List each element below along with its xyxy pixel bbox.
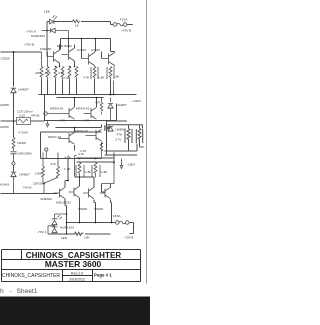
svg-text:1.8K: 1.8K [113,75,120,79]
svg-text:47K: 47K [117,133,123,137]
svg-text:2.7V: 2.7V [115,138,122,142]
svg-text:100V/250V: 100V/250V [17,152,33,156]
svg-text:4.7K: 4.7K [78,152,85,156]
svg-text:4.7K: 4.7K [63,76,70,80]
svg-text:MJE15033: MJE15033 [56,201,71,205]
svg-text:C5200: C5200 [1,57,10,61]
svg-text:MUR1620: MUR1620 [31,34,45,38]
svg-text:LED: LED [61,236,68,240]
svg-text:-70V B: -70V B [22,186,31,190]
svg-text:10K: 10K [84,236,90,240]
svg-text:22K/2W: 22K/2W [33,182,44,186]
svg-text:C5200: C5200 [94,207,103,211]
svg-text:56K: 56K [139,145,145,149]
svg-text:-: - [10,288,12,295]
svg-text:4.7K: 4.7K [83,76,90,80]
svg-text:A1943: A1943 [91,48,100,52]
svg-text:1N4007: 1N4007 [116,103,127,107]
svg-text:LED: LED [44,10,51,14]
svg-text:A1943: A1943 [0,183,9,187]
svg-text:MPSA-92: MPSA-92 [75,129,89,133]
svg-text:47K: 47K [95,101,101,105]
svg-text:1N4007: 1N4007 [115,128,126,132]
svg-text:1.8K: 1.8K [98,76,105,80]
svg-text:A1943: A1943 [77,48,86,52]
svg-text:MJE350: MJE350 [40,47,52,51]
svg-text:0.22: 0.22 [19,113,25,117]
svg-text:1.7K: 1.7K [64,167,71,171]
svg-text:Sheet1: Sheet1 [17,288,38,295]
svg-text:MJE340: MJE340 [41,197,53,201]
svg-text:-70V A: -70V A [37,230,47,234]
svg-text:+150V: +150V [132,99,142,103]
svg-text:4.7K: 4.7K [45,71,52,75]
svg-text:4.7K: 4.7K [83,119,90,123]
svg-text:+70V A: +70V A [26,30,37,34]
svg-text:10/3W: 10/3W [17,141,26,145]
svg-text:-70V B: -70V B [124,236,133,240]
svg-text:MASTER 3600: MASTER 3600 [45,259,102,269]
svg-text:4.7K: 4.7K [59,119,66,123]
svg-text:22/5W: 22/5W [0,103,9,107]
svg-text:22K: 22K [35,71,41,75]
svg-text:h: h [0,288,4,295]
svg-text:Page # 1: Page # 1 [94,273,112,278]
svg-text:+70V B: +70V B [121,29,131,33]
svg-text:-150V: -150V [127,163,136,167]
svg-text:MUR1620: MUR1620 [60,226,74,230]
svg-text:22/5W: 22/5W [0,125,9,129]
svg-text:4.7K: 4.7K [65,156,72,160]
svg-text:CHINOKS_CAPSIGHTER: CHINOKS_CAPSIGHTER [2,273,60,279]
svg-text:MPSA-42: MPSA-42 [76,107,90,111]
svg-text:F15A: F15A [113,214,121,218]
svg-text:1N4007: 1N4007 [19,173,30,177]
svg-text:MPSA-42: MPSA-42 [50,107,64,111]
svg-text:+70V B: +70V B [24,43,34,47]
svg-text:F15A: F15A [120,18,128,22]
svg-text:Rev.1.0: Rev.1.0 [71,272,83,276]
svg-text:1N4007: 1N4007 [18,88,29,92]
svg-text:SPCB: SPCB [31,113,39,117]
svg-text:MJE15032: MJE15032 [57,44,72,48]
svg-text:C5200: C5200 [78,207,87,211]
svg-text:1.8K: 1.8K [101,170,108,174]
svg-text:1/2W: 1/2W [35,172,42,176]
svg-text:4.7/2W: 4.7/2W [18,131,28,135]
svg-text:4.7K: 4.7K [58,71,65,75]
svg-text:47K: 47K [51,162,57,166]
svg-text:MPSA-92: MPSA-92 [48,135,62,139]
svg-text:1.8K: 1.8K [85,170,92,174]
svg-text:2/03/2012: 2/03/2012 [69,277,85,281]
